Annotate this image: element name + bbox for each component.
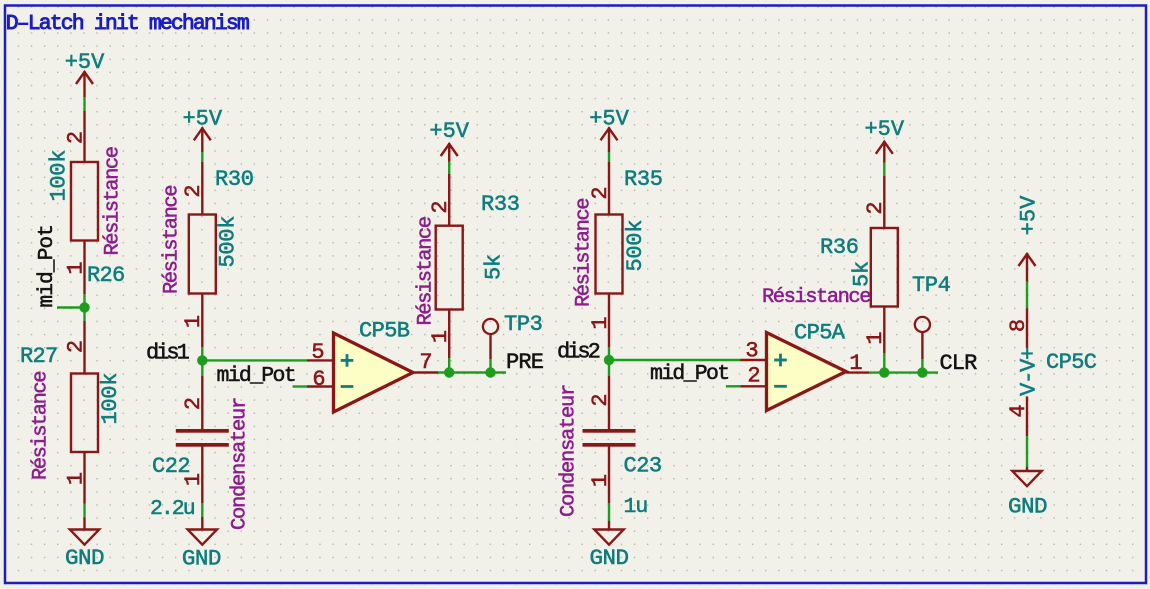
svg-text:5: 5: [311, 340, 324, 365]
svg-text:5k: 5k: [850, 261, 875, 287]
svg-text:dis2: dis2: [557, 340, 600, 365]
svg-text:Résistance: Résistance: [573, 199, 596, 307]
svg-text:CP5C: CP5C: [1046, 350, 1097, 375]
svg-text:2: 2: [181, 397, 206, 410]
svg-text:+5V: +5V: [429, 119, 469, 144]
svg-text:4: 4: [1006, 404, 1031, 417]
svg-text:2: 2: [863, 201, 888, 214]
svg-text:R36: R36: [820, 235, 859, 260]
svg-text:R33: R33: [481, 192, 520, 217]
svg-text:R26: R26: [87, 263, 125, 288]
svg-text:+5V: +5V: [864, 117, 904, 142]
svg-text:2: 2: [63, 340, 88, 353]
svg-text:3: 3: [745, 339, 758, 364]
svg-text:CP5B: CP5B: [359, 319, 410, 344]
svg-text:R35: R35: [624, 167, 663, 192]
svg-text:8: 8: [1006, 319, 1031, 332]
svg-text:GND: GND: [589, 545, 628, 571]
svg-text:500k: 500k: [216, 216, 241, 268]
svg-text:2: 2: [428, 200, 453, 213]
svg-text:GND: GND: [182, 546, 221, 572]
svg-text:Résistance: Résistance: [762, 286, 870, 309]
svg-text:R30: R30: [215, 167, 254, 192]
svg-text:D–Latch init mechanism: D–Latch init mechanism: [6, 12, 249, 36]
svg-text:CLR: CLR: [940, 351, 978, 376]
svg-text:TP3: TP3: [504, 312, 542, 337]
svg-text:+5V: +5V: [1017, 195, 1042, 235]
svg-text:Résistance: Résistance: [161, 186, 184, 294]
svg-text:2: 2: [181, 184, 206, 197]
svg-text:R27: R27: [20, 344, 58, 369]
svg-text:Résistance: Résistance: [415, 217, 438, 325]
svg-text:100k: 100k: [98, 373, 123, 425]
svg-text:Résistance: Résistance: [102, 147, 125, 255]
svg-text:Résistance: Résistance: [30, 372, 53, 480]
svg-text:6: 6: [312, 367, 325, 392]
svg-text:GND: GND: [65, 545, 104, 571]
svg-text:1: 1: [849, 351, 862, 376]
svg-text:7: 7: [419, 350, 432, 375]
svg-text:mid_Pot: mid_Pot: [650, 362, 728, 386]
svg-text:Condensateur: Condensateur: [558, 385, 581, 517]
svg-text:2: 2: [63, 131, 88, 144]
svg-text:CP5A: CP5A: [794, 321, 846, 346]
svg-text:2: 2: [588, 186, 613, 199]
svg-text:100k: 100k: [47, 150, 72, 202]
svg-text:2.2u: 2.2u: [150, 497, 195, 521]
svg-text:C23: C23: [624, 454, 662, 479]
svg-text:GND: GND: [1008, 494, 1047, 520]
svg-text:Condensateur: Condensateur: [229, 398, 252, 530]
svg-text:mid_Pot: mid_Pot: [217, 364, 295, 388]
svg-text:500k: 500k: [623, 220, 648, 272]
svg-text:TP4: TP4: [912, 273, 951, 298]
svg-text:dis1: dis1: [146, 341, 190, 366]
svg-text:PRE: PRE: [506, 350, 544, 375]
svg-text:2: 2: [588, 393, 613, 406]
svg-text:1u: 1u: [624, 495, 648, 519]
svg-text:2: 2: [747, 364, 760, 389]
svg-text:V-V+: V-V+: [1017, 348, 1042, 396]
svg-text:mid_Pot: mid_Pot: [36, 225, 59, 308]
svg-text:5k: 5k: [482, 254, 507, 280]
